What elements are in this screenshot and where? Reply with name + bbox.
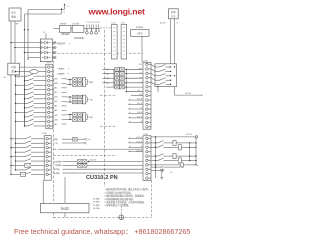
terminal strip X133 section2	[143, 134, 151, 181]
wire F1 bottom stub	[157, 86, 158, 92]
terminal legend text	[93, 197, 100, 211]
output bottom row	[151, 163, 199, 167]
wire G1 phase down	[170, 19, 172, 64]
middle row labels	[54, 79, 67, 126]
svg-text:2: 2	[51, 71, 52, 73]
junction dot bus4	[27, 29, 28, 30]
wire PE row	[54, 149, 143, 151]
dashed lead to ground	[120, 206, 122, 215]
bottom wire rows to X133	[54, 159, 143, 175]
brake resistor box	[41, 203, 90, 212]
handset loop symbol	[15, 70, 46, 74]
svg-text:5: 5	[51, 85, 52, 87]
wire TB1 to X121 pin1	[20, 66, 46, 68]
output ladder top rail	[151, 133, 198, 138]
output row K3	[151, 154, 197, 159]
svg-text:15: 15	[149, 127, 151, 129]
svg-text:L1: L1	[67, 6, 69, 8]
svg-text:开关: 开关	[11, 10, 16, 14]
svg-text:3: 3	[49, 147, 50, 149]
wire PS1 to TB1 right	[14, 21, 16, 63]
label N right	[177, 23, 179, 25]
rectifier box U2	[40, 39, 52, 62]
zone boundary dash-dot vertical (cabinet/shaft)	[52, 42, 54, 218]
terminal strip X132 section1	[143, 60, 151, 129]
transformer box TB1	[8, 63, 20, 75]
svg-text:1: 1	[49, 139, 50, 141]
svg-text:6: 6	[51, 89, 52, 91]
svg-text:DI20-H: DI20-H	[137, 112, 143, 114]
pin tag labels X132 top	[138, 64, 143, 84]
svg-text:X124: X124	[111, 22, 115, 24]
svg-text:SB3: SB3	[54, 106, 57, 108]
label resistor 4.7k	[170, 172, 173, 174]
UPS box	[131, 30, 150, 37]
wires X132 to contact box F1	[151, 64, 155, 84]
dashed link to X124	[101, 27, 112, 29]
wire brake box down	[64, 213, 66, 218]
label power filter	[74, 36, 84, 40]
svg-text:1: 1	[51, 67, 52, 69]
svg-text:DI16: DI16	[139, 73, 142, 75]
svg-text:DO10-H: DO10-H	[136, 137, 143, 139]
brake cluster 3	[67, 113, 93, 122]
terminal strip X121	[46, 62, 53, 129]
wire U2 row3 to bus3	[24, 52, 42, 54]
brake cluster 2	[67, 95, 93, 104]
diode to ground D1	[160, 170, 163, 180]
svg-text:12: 12	[149, 113, 151, 115]
mains box G1	[169, 9, 179, 19]
zone boundary dashed horizontal bottom	[53, 216, 151, 218]
svg-text:电源: 电源	[11, 15, 16, 19]
svg-text:13: 13	[149, 118, 151, 120]
wire N feeder horizontal	[25, 13, 62, 15]
wire tag rows DI16-DI21	[129, 99, 144, 123]
wire U2 row2 to bus2	[14, 47, 42, 49]
svg-text:DO11-H: DO11-H	[136, 142, 143, 144]
bus wire B1 vertical	[10, 75, 12, 175]
bus wire B3 lower vertical	[24, 76, 26, 126]
junction dot bus3	[24, 29, 25, 30]
svg-text:KMC: KMC	[54, 79, 59, 81]
svg-text:X125: X125	[121, 22, 125, 24]
red website text	[88, 6, 146, 16]
svg-text:DI16-H: DI16-H	[137, 99, 143, 101]
wire tag row 2	[54, 141, 87, 145]
wire M row	[126, 90, 143, 92]
svg-text:14: 14	[51, 126, 53, 128]
svg-text:5: 5	[49, 156, 50, 158]
wire into plug X140	[53, 27, 59, 29]
svg-text:4.7k: 4.7k	[170, 172, 173, 174]
protective earth symbol	[119, 215, 124, 220]
zone boundary dashed horizontal mid-low	[53, 154, 116, 156]
safety switch cluster SQ1-SQ4	[102, 68, 143, 89]
wire tag rows DO10-DO12	[129, 137, 144, 152]
plug component P1	[25, 163, 30, 167]
svg-text:8: 8	[51, 99, 52, 101]
svg-text:www.longi.net: www.longi.net	[88, 6, 146, 16]
zone boundary dashed vertical bottom-right	[151, 180, 153, 217]
plug component P2	[20, 172, 25, 176]
terminal tick row	[84, 22, 101, 29]
wire row DI6	[131, 94, 143, 96]
svg-text:2: 2	[49, 143, 50, 145]
label UPS top	[136, 25, 143, 29]
wire L feeder horizontal	[28, 9, 65, 11]
svg-text:11: 11	[149, 109, 151, 111]
door lock contact box F1	[155, 64, 177, 87]
svg-text:DO12-H: DO12-H	[136, 150, 143, 152]
output ladder mid rail	[189, 143, 191, 161]
svg-text:DI17-H: DI17-H	[137, 103, 143, 105]
svg-text:Free technical guidance, whats: Free technical guidance, whatsapp： +8618…	[14, 227, 190, 236]
wire G1 neutral down	[174, 19, 176, 64]
terminal block X125	[121, 22, 127, 59]
svg-text:制动器: 制动器	[61, 207, 69, 211]
zone boundary dash-dot vertical (mid)	[104, 30, 106, 187]
cluster vertical tie left	[113, 69, 115, 87]
cluster vertical tie right	[126, 69, 127, 92]
svg-text:9: 9	[49, 174, 50, 176]
wire U2 row1 to bus1	[10, 42, 42, 44]
label AC220 left	[160, 22, 166, 25]
red contact text	[14, 227, 190, 236]
label note row a	[57, 67, 70, 71]
svg-text:AC220: AC220	[160, 22, 166, 25]
output row K4	[151, 158, 197, 163]
terminal block X124	[111, 22, 117, 59]
svg-text:8: 8	[49, 170, 50, 172]
svg-text:OFF3: OFF3	[138, 69, 142, 71]
wire U2 row4 to bus4	[28, 58, 40, 60]
label encoder below plugs	[61, 32, 69, 36]
label TB1 right	[18, 77, 21, 79]
label feeder N	[64, 12, 66, 14]
svg-text:10: 10	[51, 108, 53, 110]
svg-text:10: 10	[149, 178, 151, 180]
svg-text:DI 6: DI 6	[139, 94, 142, 96]
svg-text:P: P	[86, 22, 87, 24]
sensor row 1	[151, 166, 185, 169]
input contact rows to X121	[15, 74, 46, 127]
svg-text:SB1: SB1	[54, 88, 57, 90]
svg-text:6: 6	[49, 161, 50, 163]
svg-text:4: 4	[51, 80, 52, 82]
wire vertical drop bus4	[27, 10, 29, 61]
svg-text:11: 11	[51, 112, 53, 114]
svg-text:AC220V: AC220V	[185, 92, 192, 95]
wire X126 to brake box	[42, 180, 44, 203]
arrow terminal N	[61, 8, 63, 15]
svg-text:10: 10	[149, 104, 151, 106]
label cabinet wiring	[57, 42, 71, 46]
zone boundary dashed horizontal stub y95	[100, 94, 116, 96]
svg-text:4: 4	[49, 152, 50, 154]
label note row b	[57, 72, 70, 76]
label NF	[16, 24, 19, 26]
svg-text:KMJ: KMJ	[54, 101, 58, 103]
output ladder right rail	[195, 137, 197, 165]
wire tag row KM	[54, 137, 91, 141]
diagnostic plug X140	[59, 21, 71, 32]
bus wire B2 vertical	[15, 75, 17, 170]
svg-text:①: ①	[69, 43, 71, 46]
terminal strip X126	[42, 133, 51, 180]
svg-text:SB5: SB5	[54, 124, 57, 126]
svg-text:13: 13	[51, 121, 53, 123]
wire U2 stub top	[45, 34, 47, 40]
label U2 top	[43, 32, 46, 34]
sensor row 2	[151, 170, 164, 171]
output row K2	[151, 145, 197, 150]
wire U2 outputs right	[52, 42, 56, 59]
svg-text:9: 9	[51, 103, 52, 105]
wire UPS down to X132	[142, 36, 143, 61]
wire into brake box	[64, 177, 66, 203]
installation notes text	[105, 187, 151, 207]
svg-text:7: 7	[51, 94, 52, 96]
svg-text:DI17: DI17	[139, 77, 142, 79]
svg-text:SB4: SB4	[54, 110, 57, 112]
earth terminal circles	[86, 28, 100, 34]
output ladder left rail	[155, 136, 156, 178]
power supply box PS1	[9, 8, 21, 21]
zone boundary dashed horizontal upper	[53, 52, 143, 54]
zone boundary dashed horizontal stub y126	[100, 125, 116, 127]
label feeder L	[67, 6, 69, 8]
svg-text:CU310-2 PN: CU310-2 PN	[86, 175, 118, 181]
wire AC220 socket line	[175, 87, 204, 96]
wire PS1 to TB1 left	[10, 21, 12, 63]
svg-text:DI21-H: DI21-H	[137, 117, 143, 119]
svg-text:SB2: SB2	[54, 92, 57, 94]
wire plug X140 to X141	[71, 27, 72, 29]
commissioning plug X141	[72, 21, 84, 32]
svg-text:PE: PE	[97, 22, 99, 24]
svg-text:3: 3	[51, 76, 52, 78]
controller title CU310-2 PN	[86, 175, 118, 181]
output row K1	[151, 140, 197, 145]
svg-text:12: 12	[51, 117, 53, 119]
input contact rows to X126	[10, 136, 44, 175]
wire vertical drop bus3	[24, 14, 26, 126]
label TB1 left	[4, 76, 7, 79]
svg-text:7: 7	[49, 165, 50, 167]
svg-text:UPS: UPS	[137, 32, 143, 36]
svg-text:AC220V: AC220V	[90, 159, 97, 162]
brake cluster 1	[67, 78, 93, 87]
arrow terminal L	[64, 3, 66, 10]
svg-text:14: 14	[149, 122, 151, 124]
